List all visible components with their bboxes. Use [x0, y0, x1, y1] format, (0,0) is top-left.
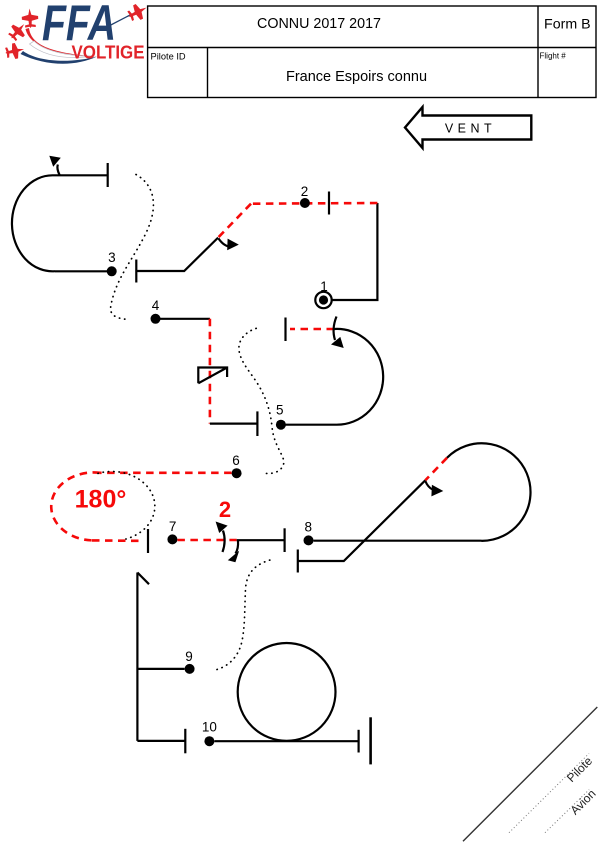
sequence end bar	[369, 717, 372, 764]
figure 6 180 turn red dashed arc	[51, 472, 100, 540]
svg-text:5: 5	[276, 403, 284, 418]
logo plane 2	[6, 19, 30, 44]
figure 6 exit red dashed	[92, 539, 144, 542]
figure 7 end tick	[284, 528, 286, 552]
node dot 5	[276, 420, 286, 430]
figure 2 upright 45 down and level	[136, 238, 218, 271]
figure 4 end tick	[256, 411, 258, 436]
figure 7 upright exit line	[237, 539, 285, 541]
figure 8 upright 45 down and level exit	[298, 480, 426, 561]
figure 4 inverted spin down line (red dashed)	[209, 319, 212, 424]
logo swoosh light	[30, 41, 95, 58]
figure 3 entry line	[55, 270, 112, 272]
svg-text:3: 3	[108, 250, 116, 265]
figure 2 inverted 45 down (red dashed)	[218, 204, 251, 238]
figure 6 180 turn dotted arc	[98, 472, 155, 539]
logo plane 1	[21, 8, 38, 28]
figure 9 end tick	[184, 729, 186, 754]
logo contrail line	[105, 14, 132, 28]
figure 1 inverted level (red dashed)	[251, 202, 377, 205]
node dot 6	[232, 468, 242, 478]
figure 4 entry line	[156, 318, 210, 320]
signature corner diagonal	[463, 707, 597, 841]
positioning dotted line 3-4	[111, 175, 154, 320]
svg-text:10: 10	[202, 720, 217, 735]
svg-text:2: 2	[301, 184, 309, 199]
figure 10 entry line	[214, 740, 358, 742]
svg-text:8: 8	[305, 520, 313, 535]
svg-text:CONNU 2017 2017: CONNU 2017 2017	[257, 16, 381, 32]
figure 8 inverted 45 down (red dashed)	[425, 458, 447, 481]
node dot 8	[304, 535, 314, 545]
figure 8 teardrop loop arc	[447, 443, 531, 541]
FFA Voltige logo	[4, 0, 150, 64]
figure 7 roll arrow up	[223, 531, 225, 553]
node dot 9	[185, 664, 195, 674]
figure 5 half loop arc	[334, 329, 383, 425]
figure 5 entry line	[281, 424, 336, 426]
svg-text:VOLTIGE: VOLTIGE	[72, 43, 145, 63]
start marker figure 1	[315, 292, 331, 308]
figure 5 inverted exit (red dashed)	[290, 328, 334, 331]
figure 2 end tick	[135, 260, 137, 283]
figure number labels	[108, 184, 328, 735]
pilote signature dotted line	[509, 754, 589, 833]
logo plane top right	[125, 0, 150, 23]
svg-text:6: 6	[232, 453, 240, 468]
figure 7 inverted entry (red dashed)	[177, 539, 236, 542]
avion signature dotted line	[545, 790, 589, 833]
figure 9 entry line	[137, 668, 184, 670]
positioning dotted line 8-9	[217, 560, 270, 669]
figure 4 spin symbol	[198, 368, 227, 384]
logo plane 3	[4, 41, 26, 60]
svg-text:Form B: Form B	[544, 16, 591, 32]
node dot 3	[107, 266, 117, 276]
figure 8 entry line	[314, 540, 482, 542]
svg-text:1: 1	[320, 279, 328, 294]
figure 9 vertical line	[136, 573, 138, 741]
figure 5 loop direction arrow	[334, 317, 337, 341]
figure 8 end tick	[297, 550, 299, 573]
figure 9 hammerhead hook	[137, 573, 149, 585]
figure 3 half loop arc	[12, 175, 55, 271]
node dot 4	[151, 314, 161, 324]
svg-text:VENT: VENT	[445, 122, 496, 136]
node dot 10	[204, 736, 214, 746]
svg-text:France Espoirs connu: France Espoirs connu	[286, 69, 427, 85]
figure 10 loop circle	[238, 643, 336, 741]
node dot 7	[167, 534, 177, 544]
figure 9 exit line	[137, 740, 185, 742]
svg-text:Pilote ID: Pilote ID	[151, 52, 186, 62]
figure 6 end tick	[147, 529, 149, 553]
logo swoosh red	[26, 28, 98, 57]
figure 7 roll arrow down	[236, 541, 239, 554]
svg-text:9: 9	[185, 649, 193, 664]
svg-text:2: 2	[219, 497, 231, 522]
header table frame	[148, 6, 596, 98]
figure 5 end tick	[284, 318, 286, 342]
logo swoosh blue	[21, 51, 98, 64]
figure 3 roll arrow	[57, 165, 59, 176]
figure 3 exit line	[53, 174, 108, 176]
node dot 2	[300, 198, 310, 208]
figure 10 end tick	[358, 730, 360, 753]
svg-text:7: 7	[169, 519, 177, 534]
figure 1 end tick	[328, 192, 330, 215]
figure 2 half-roll arrow	[219, 239, 232, 247]
svg-text:4: 4	[152, 298, 160, 313]
svg-text:180°: 180°	[75, 486, 127, 514]
positioning dotted line 5-6	[239, 328, 284, 473]
VENT wind arrow	[405, 107, 531, 148]
figure 4 exit line	[210, 423, 258, 425]
figure 8 half-roll arrow	[425, 481, 433, 490]
svg-text:Flight #: Flight #	[540, 52, 567, 61]
figure 3 end tick	[107, 163, 109, 187]
figure 6 inverted entry (red dashed)	[100, 471, 232, 474]
figure 1 entry line	[332, 203, 378, 300]
